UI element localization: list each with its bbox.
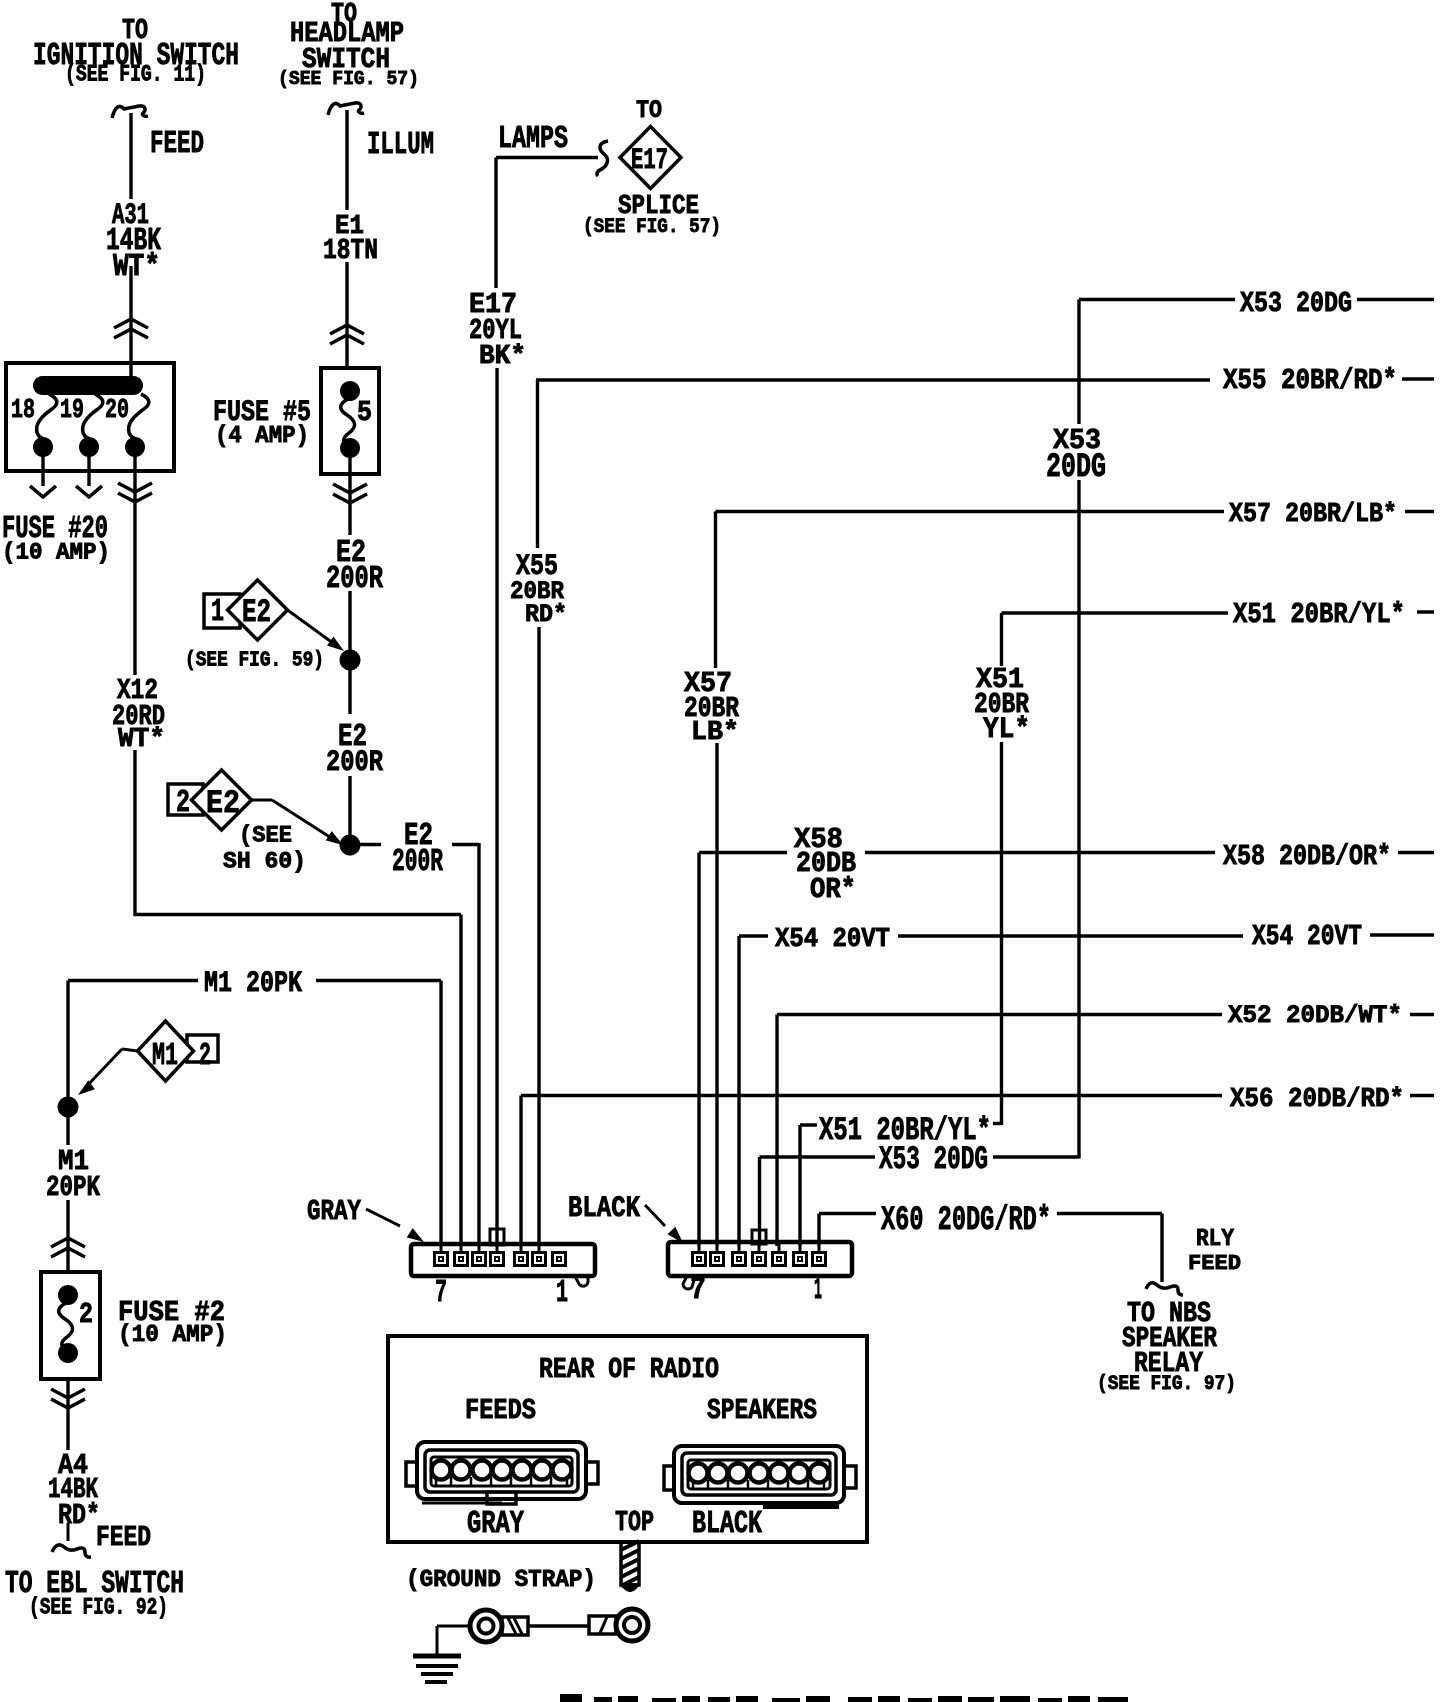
wire X60 from black pin 1 xyxy=(817,1214,820,1247)
svg-text:20PK: 20PK xyxy=(46,1171,101,1204)
svg-text:M1 20PK: M1 20PK xyxy=(204,966,302,1000)
arrow from reference 2 E2 to junction xyxy=(252,799,273,802)
svg-text:TO: TO xyxy=(636,96,662,125)
svg-text:FEEDS: FEEDS xyxy=(465,1394,536,1427)
connector chevrons on wire A31 xyxy=(114,319,148,328)
fuse element 19 xyxy=(83,394,103,449)
connector chevrons on wire M1 xyxy=(51,1238,85,1247)
terminal dot 19 xyxy=(79,437,99,457)
svg-text:(SEE FIG. 11): (SEE FIG. 11) xyxy=(65,61,206,87)
svg-text:X55 20BR/RD*: X55 20BR/RD* xyxy=(1223,364,1397,397)
svg-text:X56 20DB/RD*: X56 20DB/RD* xyxy=(1230,1085,1404,1115)
arrow fuse19 output xyxy=(76,486,102,497)
junction dot M1 xyxy=(58,1097,79,1118)
svg-text:19: 19 xyxy=(60,396,84,426)
wire X58 vertical to black pin 7 xyxy=(697,853,700,1247)
connector black 7-pin housing xyxy=(683,1276,694,1289)
wire E2 below fuse F5 xyxy=(348,456,351,535)
connector half A4 to EBL switch xyxy=(67,1523,70,1541)
arrow fuse18 output xyxy=(30,486,56,497)
svg-text:20DG: 20DG xyxy=(1046,448,1106,487)
svg-text:RLY: RLY xyxy=(1196,1226,1235,1253)
connector black pin 2 xyxy=(794,1253,807,1266)
svg-text:FEED: FEED xyxy=(150,127,204,162)
fuse element 18 xyxy=(37,394,57,449)
wire X58 horizontal xyxy=(699,851,787,854)
svg-text:LAMPS: LAMPS xyxy=(498,122,568,157)
svg-text:BLACK: BLACK xyxy=(692,1507,762,1542)
svg-text:X54 20VT: X54 20VT xyxy=(1252,920,1362,953)
terminal dot 20 xyxy=(125,437,145,457)
splice reference 2 E2 box xyxy=(168,784,203,815)
svg-text:E2: E2 xyxy=(206,785,240,822)
svg-text:7: 7 xyxy=(435,1276,447,1311)
wire X55 horizontal xyxy=(536,378,1210,381)
ground strap right ring terminal xyxy=(616,1609,648,1641)
svg-text:(10 AMP): (10 AMP) xyxy=(2,539,110,565)
wire M1 vertical xyxy=(66,981,69,1099)
svg-text:X53 20DG: X53 20DG xyxy=(1240,287,1352,320)
wire X56 vertical to gray pin 3 xyxy=(519,1096,522,1247)
wire fuse18 output xyxy=(41,455,44,486)
svg-text:(4 AMP): (4 AMP) xyxy=(215,423,309,450)
svg-text:E2: E2 xyxy=(242,594,271,631)
svg-text:2: 2 xyxy=(199,1039,211,1074)
wire X51 vertical xyxy=(1000,613,1003,666)
svg-text:FEED: FEED xyxy=(1188,1253,1241,1276)
wire X53 horizontal top xyxy=(1079,298,1235,301)
junction dot E2 upper xyxy=(340,650,361,671)
svg-text:(SEE FIG. 97): (SEE FIG. 97) xyxy=(1097,1373,1236,1396)
svg-text:FEED: FEED xyxy=(96,1521,151,1554)
connector half E1 to headlamp switch xyxy=(328,103,364,115)
connector gray 7-pin housing xyxy=(575,1276,588,1286)
svg-text:2: 2 xyxy=(79,1298,93,1331)
wire X51 inner horizontal xyxy=(993,1122,1002,1125)
wire X54 vertical to black pin 5 xyxy=(737,936,740,1246)
wire X57 vertical to black pin 6 xyxy=(714,512,717,669)
wire X53 vertical xyxy=(1077,300,1080,425)
connector gray pin 7 xyxy=(435,1253,448,1266)
svg-text:E17: E17 xyxy=(631,143,668,177)
connector gray pin 2 xyxy=(533,1253,546,1266)
splice symbol E17 xyxy=(620,127,681,189)
mounting bolt xyxy=(621,1542,639,1585)
svg-text:M1: M1 xyxy=(152,1039,178,1074)
splice reference M1 2 box xyxy=(187,1035,218,1062)
svg-text:RD*: RD* xyxy=(525,600,567,629)
svg-text:200R: 200R xyxy=(392,845,443,880)
svg-text:18TN: 18TN xyxy=(323,234,378,267)
radio connector black SPEAKERS xyxy=(674,1446,844,1503)
svg-text:LB*: LB* xyxy=(691,718,739,748)
connector black pin 1 xyxy=(813,1253,826,1266)
bus bar xyxy=(33,376,143,395)
wire X57 horizontal xyxy=(716,510,1225,513)
wire E17 horizontal to splice xyxy=(496,156,598,159)
ground strap left ring terminal xyxy=(470,1610,502,1642)
connector half to splice E17 xyxy=(597,141,608,176)
svg-text:X58 20DB/OR*: X58 20DB/OR* xyxy=(1223,840,1391,873)
connector black pin 7 xyxy=(693,1253,706,1266)
svg-text:20: 20 xyxy=(105,396,129,426)
splice reference 1 E2 box xyxy=(204,594,240,628)
wire X52 vertical to black pin 3 xyxy=(775,1015,778,1247)
svg-text:X57 20BR/LB*: X57 20BR/LB* xyxy=(1229,500,1397,530)
ground symbol xyxy=(413,1654,461,1659)
connector black pin 5 xyxy=(733,1253,746,1266)
svg-text:X51 20BR/YL*: X51 20BR/YL* xyxy=(1233,598,1405,631)
pin stub cover on black pin 4 xyxy=(752,1230,766,1244)
connector chevrons on wire X12 xyxy=(118,483,152,492)
svg-text:5: 5 xyxy=(357,396,372,429)
fuse element 20 xyxy=(129,394,149,449)
svg-text:(SEE FIG. 57): (SEE FIG. 57) xyxy=(278,68,419,90)
fuse element 2 xyxy=(58,1285,78,1305)
svg-text:WT*: WT* xyxy=(113,250,160,285)
svg-text:GRAY: GRAY xyxy=(307,1195,361,1228)
connector chevrons on wire A4 xyxy=(51,1389,85,1398)
svg-text:BLACK: BLACK xyxy=(568,1191,640,1225)
connector black pin 6 xyxy=(711,1253,724,1266)
svg-text:18: 18 xyxy=(11,396,35,426)
wire A31 vertical xyxy=(129,113,132,199)
svg-text:REAR OF RADIO: REAR OF RADIO xyxy=(539,1353,719,1386)
svg-text:X54 20VT: X54 20VT xyxy=(775,925,890,955)
arrow from reference M1 2 to junction xyxy=(122,1049,138,1051)
connector gray pin 4 xyxy=(491,1253,504,1266)
splice reference 1 E2 diamond xyxy=(228,580,288,640)
svg-text:200R: 200R xyxy=(326,562,383,597)
svg-text:GRAY: GRAY xyxy=(467,1507,524,1542)
wire X51 to black pin 2 xyxy=(798,1125,801,1246)
fuse element 5 xyxy=(340,381,360,401)
connector half to NBS speaker relay xyxy=(1146,1283,1183,1295)
svg-text:BK*: BK* xyxy=(479,342,526,372)
svg-text:1: 1 xyxy=(556,1276,568,1311)
connector chevrons on wire E1 xyxy=(330,325,364,334)
connector gray pin 5 xyxy=(473,1253,486,1266)
fuse block box xyxy=(6,363,174,471)
wire X56 horizontal xyxy=(521,1094,1222,1097)
connector gray pin 6 xyxy=(455,1253,468,1266)
ground strap wire xyxy=(528,1624,589,1628)
wire M1 below junction xyxy=(66,1117,69,1145)
svg-text:ILLUM: ILLUM xyxy=(367,128,434,163)
wire X53 to black pin 4 xyxy=(758,1157,761,1246)
terminal dot 18 xyxy=(33,437,53,457)
wire A4 below fuse F2 xyxy=(66,1379,69,1450)
wire X12 to gray pin 6 xyxy=(133,750,136,916)
svg-text:SH 60): SH 60) xyxy=(223,848,306,874)
svg-text:200R: 200R xyxy=(326,745,383,779)
junction dot E2 lower xyxy=(340,835,361,856)
connector gray pin 3 xyxy=(515,1253,528,1266)
rear of radio box xyxy=(388,1336,867,1542)
svg-text:WT*: WT* xyxy=(118,725,165,755)
ground strap right crimp xyxy=(589,1616,616,1634)
svg-text:7: 7 xyxy=(690,1273,706,1308)
wire X55 vertical to gray pin 2 xyxy=(536,380,539,548)
fuse F2 box xyxy=(41,1272,100,1379)
connector black pin 3 xyxy=(773,1253,786,1266)
svg-text:2: 2 xyxy=(176,786,190,821)
wire fuse19 output xyxy=(87,455,90,486)
svg-text:(SEE FIG. 59): (SEE FIG. 59) xyxy=(185,648,324,673)
svg-text:1: 1 xyxy=(814,1273,822,1308)
connector chevrons below fuse F5 xyxy=(333,484,367,493)
svg-text:TOP: TOP xyxy=(615,1506,654,1539)
ground strap left crimp xyxy=(502,1617,528,1635)
svg-text:SPEAKERS: SPEAKERS xyxy=(707,1394,817,1427)
connector black pin 4 xyxy=(753,1253,766,1266)
cropped caption at bottom edge xyxy=(560,1694,582,1702)
svg-text:(SEE FIG. 57): (SEE FIG. 57) xyxy=(583,216,721,239)
radio connector gray FEEDS xyxy=(417,1442,586,1499)
svg-text:YL*: YL* xyxy=(983,712,1030,746)
connector half A31 to ignition switch xyxy=(112,106,148,118)
svg-text:(SEE: (SEE xyxy=(239,822,292,848)
wire M1 horizontal xyxy=(68,979,198,982)
wire E1 vertical xyxy=(345,110,348,210)
fuse F5 box xyxy=(321,368,379,474)
wire E2 between junctions xyxy=(348,670,351,714)
svg-text:X60 20DG/RD*: X60 20DG/RD* xyxy=(881,1201,1051,1240)
wire E2 to gray pin 5 xyxy=(360,843,381,846)
splice reference M1 2 diamond xyxy=(138,1021,194,1081)
wire X51 horizontal xyxy=(1002,611,1229,614)
wire to ground xyxy=(437,1625,470,1628)
splice reference 2 E2 diamond xyxy=(192,770,252,830)
svg-text:(10 AMP): (10 AMP) xyxy=(118,1322,227,1349)
svg-text:(GROUND STRAP): (GROUND STRAP) xyxy=(406,1567,596,1594)
wire E17 vertical to gray pin 4 xyxy=(494,158,497,289)
pin stub cover on gray pin 4 xyxy=(490,1229,504,1245)
connector gray pin 1 xyxy=(553,1253,566,1266)
wire X53 lower horizontal xyxy=(993,1155,1079,1158)
svg-text:(SEE FIG. 92): (SEE FIG. 92) xyxy=(29,1594,168,1620)
svg-text:X52 20DB/WT*: X52 20DB/WT* xyxy=(1228,1001,1402,1030)
svg-text:RD*: RD* xyxy=(58,1499,100,1532)
wire X52 horizontal xyxy=(777,1013,1222,1016)
wire X54 horizontal xyxy=(739,934,768,937)
svg-text:1: 1 xyxy=(211,595,224,630)
wire fuse20 output xyxy=(133,455,136,675)
svg-text:OR*: OR* xyxy=(810,873,856,906)
arrow from reference 1 E2 to junction xyxy=(288,610,338,646)
svg-text:X51 20BR/YL*: X51 20BR/YL* xyxy=(819,1112,991,1149)
